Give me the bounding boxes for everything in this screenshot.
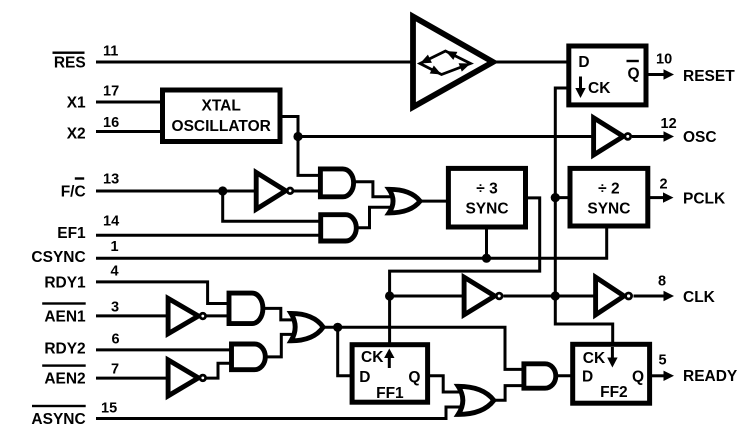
wire reset flip-flop output [646, 73, 664, 76]
wire between CLK buffers [504, 295, 598, 298]
wire EF1 to AND2 [96, 234, 322, 237]
junction CLK node at distribution line [551, 291, 560, 300]
inverter on F/C line [256, 172, 293, 209]
svg-text:4: 4 [111, 264, 119, 280]
junction OR2 output node [333, 323, 342, 332]
wire AEN2 inverter output to AND4 [207, 363, 234, 378]
and gate AND1 oscillator select [320, 169, 353, 197]
wire RES input to schmitt trigger [96, 61, 413, 64]
wire READY output [650, 374, 664, 377]
svg-text:ASYNC: ASYNC [31, 411, 85, 428]
and gate AND5 ready qualifier [524, 364, 556, 388]
svg-text:Q: Q [627, 65, 639, 82]
overline over Q of reset flip-flop [627, 60, 639, 62]
arrowhead RESET output [664, 69, 675, 79]
svg-text:8: 8 [658, 273, 666, 289]
wire AND1 output to OR1 [354, 182, 392, 197]
svg-text:D: D [578, 54, 589, 71]
second CLK inverter buffer [596, 277, 632, 315]
wire AND4 output to OR2 [265, 334, 294, 357]
svg-text:13: 13 [103, 172, 119, 188]
svg-text:CK: CK [588, 80, 611, 97]
svg-text:OSCILLATOR: OSCILLATOR [172, 118, 271, 135]
wire RDY2 to AND4 [96, 348, 233, 351]
clock arrow of FF2 [607, 347, 617, 368]
wire RDY1 to AND3 [96, 282, 231, 304]
wire OR2 node to FF1 D input [338, 327, 354, 376]
svg-text:X1: X1 [67, 95, 86, 112]
or gate OR3 async override [458, 386, 494, 414]
svg-text:Q: Q [408, 369, 420, 386]
svg-text:D: D [582, 369, 593, 386]
svg-text:RDY1: RDY1 [44, 275, 86, 292]
svg-text:RES: RES [54, 55, 86, 72]
oscillator block XTAL OSCILLATOR [163, 90, 281, 142]
or gate OR2 ready combine [291, 313, 323, 340]
overline over AEN1 [42, 302, 85, 304]
svg-text:F/C: F/C [61, 184, 86, 201]
wire OR1 output to divide-by-3 counter [420, 200, 450, 203]
svg-text:3: 3 [111, 300, 119, 316]
divide-by-2 sync counter block [570, 168, 648, 226]
wire CLK output [634, 295, 665, 298]
svg-text:6: 6 [112, 332, 120, 348]
overline over RES [53, 52, 85, 54]
wire X1 to oscillator [96, 101, 164, 104]
wire PCLK output [648, 196, 663, 199]
svg-text:OSC: OSC [683, 129, 717, 146]
inverter on AEN1 line [168, 298, 206, 333]
and gate AND2 external clock select [321, 215, 357, 241]
svg-text:÷ 3: ÷ 3 [476, 181, 498, 198]
wire FF1 Q output to OR3 [428, 376, 462, 392]
flip-flop FF1 [352, 345, 428, 403]
svg-text:CK: CK [583, 350, 606, 367]
junction CLK node at buffer input [385, 291, 394, 300]
buffer to OSC output [594, 118, 631, 155]
clock arrow of FF1 [384, 349, 394, 369]
junction F/C branch [218, 186, 227, 195]
wire AND5 output to FF2 D input [556, 374, 574, 377]
wire CSYNC to divide-by-2 sync pin [96, 224, 607, 258]
wire AEN1 to inverter [96, 314, 170, 317]
arrowhead OSC output [664, 131, 675, 141]
svg-text:SYNC: SYNC [465, 200, 508, 217]
arrowhead READY output [664, 371, 675, 381]
wire oscillator output to AND1 [280, 117, 322, 176]
svg-text:PCLK: PCLK [683, 190, 726, 207]
wire OR2 output to AND5 [323, 327, 526, 369]
svg-text:2: 2 [660, 176, 668, 192]
inverter on AEN2 line [168, 360, 206, 396]
wire OR3 output to AND5 [494, 386, 526, 401]
svg-text:CK: CK [361, 349, 384, 366]
wire clock node to divide-by-2 input [555, 196, 572, 199]
svg-text:XTAL: XTAL [202, 97, 241, 114]
arrowhead CLK output [664, 291, 675, 301]
wire OSC output [632, 135, 664, 138]
wire F/C to inverter [96, 190, 258, 193]
svg-text:16: 16 [103, 115, 119, 131]
svg-text:AEN2: AEN2 [44, 371, 85, 388]
wire ASYNC to OR3 [96, 407, 462, 419]
wire F/C inverter output to AND1 [294, 190, 323, 193]
svg-text:CLK: CLK [683, 289, 716, 306]
arrowhead PCLK output [663, 192, 674, 202]
overline over C of F/C [75, 177, 84, 179]
svg-text:SYNC: SYNC [587, 200, 630, 217]
divide-by-3 sync counter block [448, 168, 525, 227]
svg-text:FF1: FF1 [376, 385, 404, 402]
svg-text:14: 14 [103, 214, 119, 230]
svg-text:15: 15 [101, 401, 117, 417]
svg-text:11: 11 [103, 44, 118, 60]
and gate AND3 ready channel 1 [229, 293, 263, 324]
wire AEN1 inverter output to AND3 [207, 314, 232, 317]
wire AND3 output to OR2 [263, 308, 294, 320]
clock arrow of reset flip-flop [575, 77, 585, 99]
svg-text:÷ 2: ÷ 2 [598, 181, 619, 198]
and gate AND4 ready channel 2 [232, 344, 266, 370]
svg-text:D: D [359, 369, 370, 386]
wire divide-by-3 output to CLK node and FF1 clock [390, 198, 540, 347]
svg-text:RDY2: RDY2 [44, 340, 85, 357]
junction CSYNC branch [482, 254, 491, 263]
schmitt trigger buffer U1 [413, 17, 493, 108]
svg-text:X2: X2 [67, 126, 86, 143]
svg-text:AEN1: AEN1 [44, 308, 86, 325]
overline over ASYNC [32, 405, 86, 407]
junction clock line to divide-by-2 input [551, 193, 560, 202]
svg-text:17: 17 [103, 84, 119, 100]
or gate OR1 clock source select [389, 189, 420, 213]
overline over AEN2 [42, 364, 85, 366]
reset flip-flop [569, 46, 646, 105]
flip-flop FF2 [573, 344, 650, 403]
svg-text:EF1: EF1 [57, 225, 86, 242]
wire oscillator node to OSC buffer [298, 135, 595, 138]
svg-text:FF2: FF2 [600, 384, 628, 401]
svg-text:RESET: RESET [683, 68, 735, 85]
svg-text:READY: READY [683, 368, 738, 385]
wire clock distribution vertical to FF2 clock [555, 88, 612, 347]
wire CSYNC branch to divide-by-3 sync pin [485, 225, 488, 258]
svg-text:12: 12 [661, 116, 677, 132]
svg-text:Q: Q [632, 369, 644, 386]
wire X2 to oscillator [96, 130, 164, 133]
wire schmitt output to reset flip-flop D [493, 61, 570, 64]
wire AND2 output to OR1 [356, 207, 392, 228]
svg-text:CSYNC: CSYNC [31, 249, 85, 266]
junction oscillator output node [293, 132, 302, 141]
svg-text:1: 1 [111, 239, 119, 255]
first CLK inverter buffer [464, 277, 502, 315]
svg-text:5: 5 [659, 353, 667, 369]
svg-text:10: 10 [656, 52, 672, 68]
wire F/C branch to AND2 [223, 191, 322, 221]
svg-text:7: 7 [111, 362, 119, 378]
wire CLK node to first buffer [390, 295, 466, 298]
wire AEN2 to inverter [96, 377, 170, 380]
